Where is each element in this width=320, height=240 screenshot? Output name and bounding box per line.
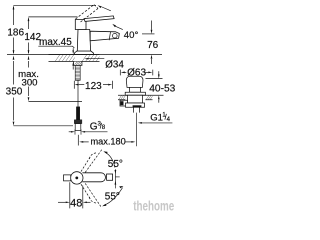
55 deg arc lower [102,186,123,206]
hose connector (filled) [76,107,79,120]
svg-text:350: 350 [6,87,23,98]
waste body below deck [120,95,145,107]
dimension max.180 [78,135,135,146]
deck hatching [55,54,100,61]
supply hose line with cross at max300 level [77,80,79,107]
aerator [113,33,118,38]
extension line lever rest level [29,16,78,18]
bottom view: spout stub left [64,175,71,181]
bottom view: body circle [71,172,83,184]
dimension 350 [13,56,15,126]
bottom view: rotated blade dashed lower [81,183,101,206]
waste tailpipe [133,107,139,112]
svg-text:Ø34: Ø34 [105,59,124,70]
svg-text:8: 8 [102,124,106,131]
pivot tip dimension [115,169,120,188]
extension line 350 end [14,125,74,127]
svg-text:123: 123 [85,81,102,92]
svg-text:G1: G1 [150,112,163,123]
dimension 142 [28,17,30,55]
dimension 48 [58,182,91,208]
40 degree leaders [98,5,123,30]
dimension 186 [13,5,15,54]
faucet body side view [74,16,119,55]
svg-text:40°: 40° [124,30,139,41]
dimension 40-53 [146,71,163,103]
svg-text:40-53: 40-53 [149,83,175,94]
55 deg arc upper [103,151,115,167]
bottom view: rotated blade dashed upper [81,149,102,173]
extension line deck level [7,54,162,56]
svg-text:4: 4 [167,117,171,123]
extension line max300 end [29,100,83,102]
bottom view: lever blade to pivot [82,173,112,182]
connector nut [74,120,82,124]
pop-up waste: O63 dimension [120,70,153,76]
lever blade solid [84,16,114,22]
dimension 123 [74,81,112,89]
svg-text:max.180: max.180 [91,137,126,147]
lever raised dashed [76,5,99,22]
svg-text:55°: 55° [108,159,123,170]
svg-text:thehome: thehome [133,198,174,214]
waste deck lines [118,95,164,100]
pop-up waste knob [125,76,145,95]
faucet shank below deck [74,62,82,81]
svg-text:48: 48 [70,197,82,209]
deck (mounting surface) [49,54,100,61]
svg-text:76: 76 [147,40,159,51]
cartridge box [75,20,86,30]
svg-text:55°: 55° [105,191,120,202]
dimension max.300 [28,56,30,102]
G3/8 thread dimension arrows [69,129,108,134]
spout [90,31,119,41]
extension line top (raised lever tip level) [14,4,97,6]
waste centerline [136,113,138,147]
svg-text:300: 300 [21,78,37,89]
dimension 76 [142,21,155,65]
G3/8 thread end [75,124,81,131]
body column [77,30,90,52]
svg-text:186: 186 [7,27,24,38]
base [74,51,93,55]
